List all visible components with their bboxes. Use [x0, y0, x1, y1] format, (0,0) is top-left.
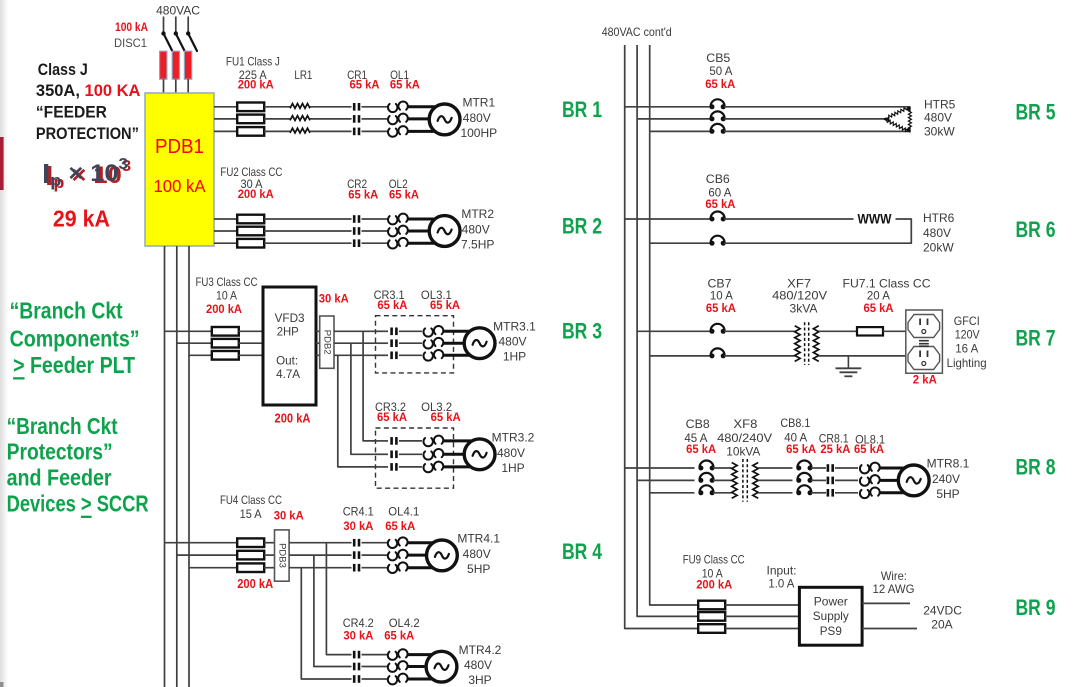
contactor CR2 pole 3 [353, 239, 360, 247]
wire [264, 230, 351, 232]
wire [724, 218, 854, 220]
contactor CR1 pole 2 [353, 115, 360, 123]
fuse FU2 pole 2 [237, 227, 264, 236]
wire (right bus phase A) [625, 45, 698, 629]
svg-text:BR 8: BR 8 [1016, 455, 1056, 480]
node BR 3 [562, 318, 602, 343]
breaker CB8 pole 1 [698, 461, 714, 471]
wire [399, 440, 422, 442]
svg-text:10 A: 10 A [216, 289, 237, 303]
svg-text:30 kA: 30 kA [319, 291, 349, 305]
heater HTR5 (delta resistor bank) [883, 106, 911, 132]
wire [310, 130, 352, 132]
svg-text:65 kA: 65 kA [854, 442, 884, 456]
bottom-left corner mark [0, 682, 4, 687]
wire [264, 106, 290, 108]
label 10 A [216, 289, 237, 303]
transformer XF8 [732, 459, 759, 502]
wire [362, 242, 388, 244]
label XF8 rating [726, 445, 760, 459]
label OL4.2 [389, 616, 420, 630]
overload OL8.1 pole 3 [860, 487, 880, 498]
wire (PDB2 to CR3.2 pole 1) [363, 331, 375, 441]
svg-text:BR 3: BR 3 [562, 318, 602, 343]
node BR 8 [1016, 455, 1056, 480]
overload OL2 pole 2 [388, 226, 408, 237]
value 65 kA (CR1) [350, 78, 380, 92]
svg-text:12 AWG: 12 AWG [873, 582, 915, 596]
overload OL2 pole 1 [388, 214, 408, 225]
label Wire: [881, 569, 907, 583]
wire [408, 566, 437, 569]
svg-text:30 kA: 30 kA [274, 508, 304, 522]
label CB8 [686, 417, 710, 431]
wire [444, 439, 476, 442]
wire [163, 17, 165, 34]
svg-text:65 kA: 65 kA [384, 629, 414, 643]
wire [399, 330, 422, 332]
wire [725, 604, 799, 606]
svg-text:350A, 100 KA: 350A, 100 KA [36, 82, 141, 100]
reactor LR1 pole 2 [290, 116, 310, 121]
node BR 6 [1016, 217, 1056, 242]
value 65 kA (OL3.1) [430, 298, 460, 312]
label 350A, 100 KA [36, 82, 141, 100]
wire [362, 218, 388, 220]
motor MTR1 [429, 104, 460, 135]
fuse FU1 pole 2 [237, 115, 264, 124]
value 200 kA (FU9) [696, 578, 732, 592]
label MTR3.1 voltage [498, 335, 526, 349]
svg-text:20kW: 20kW [923, 240, 954, 254]
svg-text:480V: 480V [464, 658, 492, 672]
wire [187, 79, 189, 93]
value 2 kA (GFCI) [913, 373, 937, 387]
svg-text:480V: 480V [463, 111, 491, 125]
overload OL3.1 pole 1 [423, 326, 443, 337]
contactor CR8.1 pole 2 [827, 477, 834, 485]
contactor CR3.1 pole 1 [390, 328, 397, 336]
wire [264, 554, 274, 556]
label HTR5 voltage [924, 111, 952, 125]
wire [189, 567, 237, 569]
wire [289, 567, 351, 569]
node 480VAC source label [156, 4, 200, 18]
label MTR8.1 [927, 457, 970, 471]
label XF7 rating [790, 302, 818, 316]
wire [835, 492, 858, 494]
svg-text:Out:: Out: [276, 353, 298, 367]
svg-text:FU3 Class CC: FU3 Class CC [196, 275, 258, 289]
wire [819, 355, 906, 357]
svg-text:480V: 480V [497, 446, 525, 460]
value 65 kA (CR3.2) [377, 410, 407, 424]
label GFCI use [947, 356, 987, 370]
wire (PDB3 to CR4.2 pole 2) [314, 555, 352, 666]
wire [811, 479, 826, 481]
fuse FU7.1 [857, 327, 883, 335]
svg-text:Devices > SCCR: Devices > SCCR [7, 491, 149, 517]
label 10 A [710, 289, 733, 303]
wire [264, 542, 274, 544]
svg-text:480/240V: 480/240V [717, 431, 772, 445]
wire [444, 465, 476, 468]
svg-text:20A: 20A [931, 617, 952, 631]
svg-text:FU1 Class J: FU1 Class J [226, 55, 280, 69]
heater HTR6 (resistor element) [858, 212, 892, 227]
svg-text:50 A: 50 A [709, 64, 732, 78]
label OL1 [390, 68, 409, 82]
fuse FU1 pole 3 [237, 127, 264, 136]
svg-text:120V: 120V [955, 327, 980, 341]
wire [264, 218, 351, 220]
svg-text:480V: 480V [463, 547, 491, 561]
formula Ip x 10^3 [42, 156, 128, 190]
label HTR6 voltage [923, 226, 951, 240]
svg-text:PS9: PS9 [820, 624, 842, 638]
svg-text:WWW: WWW [858, 212, 892, 227]
svg-text:3HP: 3HP [468, 673, 491, 687]
svg-text:10kVA: 10kVA [726, 445, 760, 459]
wire [408, 105, 440, 108]
wire [408, 218, 440, 221]
wire [264, 567, 274, 569]
overload OL4.1 pole 2 [388, 550, 408, 561]
value 25 kA (CR8.1) [820, 442, 850, 456]
svg-text:MTR3.2: MTR3.2 [492, 431, 535, 445]
contactor CR3.2 pole 2 [390, 451, 397, 459]
label MTR1 [462, 96, 495, 110]
wire [334, 342, 376, 344]
value 200 kA (FU1) [238, 78, 274, 92]
svg-text:CB8.1: CB8.1 [780, 416, 810, 430]
svg-text:65 kA: 65 kA [686, 442, 716, 456]
label OL4.1 [388, 505, 419, 519]
label MTR4.2 [459, 643, 502, 657]
svg-text:PDB1: PDB1 [155, 135, 204, 158]
contactor CR1 pole 3 [353, 128, 360, 136]
label MTR8.1 voltage [932, 472, 960, 486]
label 50 A [709, 64, 732, 78]
wire [399, 453, 422, 455]
node BR 9 [1016, 595, 1056, 620]
overload OL8.1 pole 1 [860, 463, 880, 474]
wire [177, 554, 237, 556]
value 65 kA (OL4.2) [384, 629, 414, 643]
label CR4.2 [343, 616, 374, 630]
wire [214, 118, 237, 120]
wire [880, 479, 909, 482]
contactor CR4.1 pole 1 [353, 539, 360, 547]
label FEEDER [36, 104, 107, 122]
wire [177, 342, 212, 344]
svg-text:MTR4.1: MTR4.1 [457, 532, 500, 546]
label HTR5 [924, 97, 956, 111]
wire [408, 653, 437, 656]
overload OL3.2 pole 2 [423, 449, 443, 460]
svg-text:65 kA: 65 kA [431, 410, 461, 424]
contactor CR4.2 pole 1 [353, 651, 360, 659]
wire [289, 542, 351, 544]
wire [310, 118, 352, 120]
wire [408, 242, 440, 245]
wire [811, 467, 826, 469]
svg-text:5HP: 5HP [467, 562, 490, 576]
svg-text:65 kA: 65 kA [390, 78, 420, 92]
svg-text:“Branch Ckt: “Branch Ckt [10, 297, 123, 323]
fuse FU4 pole 3 [237, 563, 264, 572]
label CB8.1 [780, 416, 810, 430]
label MTR3.1 power [503, 350, 526, 364]
svg-text:Class J: Class J [38, 61, 88, 79]
value 65 kA (CB8) [686, 442, 716, 456]
svg-text:MTR2: MTR2 [461, 207, 494, 221]
label XF8 ratio [717, 431, 772, 445]
wire [835, 479, 858, 481]
svg-text:25 kA: 25 kA [820, 442, 850, 456]
power supply PS9 [799, 587, 862, 645]
enclosure CR3.1/OL3.1 (dashed) [376, 316, 454, 373]
svg-text:65 kA: 65 kA [705, 197, 735, 211]
wire [214, 218, 237, 220]
wire (right bus phase B) [637, 45, 698, 616]
breaker CB5 pole 3 [710, 124, 726, 134]
reactor LR1 pole 3 [290, 128, 310, 133]
motor MTR4.1 [427, 540, 458, 571]
svg-text:CR4.1: CR4.1 [343, 505, 374, 519]
svg-text:480V: 480V [923, 226, 951, 240]
node BR 1 [562, 97, 602, 122]
wire [724, 118, 885, 120]
wire [239, 354, 263, 356]
breaker CB8 pole 3 [698, 485, 714, 495]
overload OL8.1 pole 2 [860, 475, 880, 486]
wire [316, 330, 320, 332]
breaker CB7 pole 1 [710, 324, 726, 334]
svg-text:Lighting: Lighting [947, 356, 987, 370]
wire [713, 467, 732, 469]
wire (PDB2 to CR3.2 pole 3) [338, 355, 376, 467]
contactor CR4.1 pole 2 [353, 551, 360, 559]
label XF7 [787, 277, 811, 291]
value 65 kA (CB7) [706, 301, 736, 315]
svg-text:BR 4: BR 4 [562, 539, 603, 564]
wire [444, 354, 476, 357]
contactor CR3.2 pole 3 [390, 463, 397, 471]
svg-text:MTR4.2: MTR4.2 [459, 643, 502, 657]
label Input: [767, 564, 797, 578]
svg-text:1.0 A: 1.0 A [768, 577, 794, 591]
overload OL4.2 pole 2 [388, 661, 408, 672]
wire [362, 118, 388, 120]
wire [724, 330, 795, 332]
label CR2 [347, 177, 367, 191]
wire (right bus phase C) [650, 45, 698, 605]
wire (PDB3 to CR4.2 pole 3) [301, 568, 351, 679]
svg-text:HTR5: HTR5 [924, 97, 956, 111]
motor MTR4.2 [426, 651, 457, 682]
wire [650, 242, 711, 244]
wire [289, 554, 351, 556]
contactor CR4.2 pole 2 [353, 663, 360, 671]
label MTR3.2 power [501, 461, 524, 475]
overload OL4.1 pole 1 [388, 537, 408, 548]
value 200 kA (VFD3) [275, 411, 311, 425]
svg-text:CB6: CB6 [706, 172, 730, 186]
label MTR2 voltage [462, 223, 490, 237]
node 480VAC contd label [602, 25, 672, 39]
wire [637, 479, 694, 481]
label CB5 [706, 51, 730, 65]
wire [399, 466, 422, 468]
wire [724, 355, 795, 357]
wire [408, 230, 440, 233]
svg-text:100 kA: 100 kA [115, 20, 148, 34]
wire (left feeder bus) [164, 246, 166, 687]
svg-text:65 kA: 65 kA [705, 77, 735, 91]
svg-text:PROTECTION”: PROTECTION” [36, 125, 139, 143]
label OL3.1 [421, 288, 452, 302]
wire [165, 542, 238, 544]
label CR3.1 [374, 288, 405, 302]
disconnect DISC1 [161, 31, 197, 51]
wire [376, 342, 389, 344]
wire [408, 678, 437, 681]
wire [264, 242, 351, 244]
wire [175, 17, 177, 34]
wire [264, 130, 290, 132]
svg-text:100HP: 100HP [460, 126, 497, 140]
breaker CB5 pole 2 [710, 111, 726, 121]
label XF7 ratio [772, 289, 827, 303]
label 15 A [240, 507, 262, 521]
wire [362, 678, 388, 680]
svg-text:Input:: Input: [767, 564, 797, 578]
svg-text:65 kA: 65 kA [430, 298, 460, 312]
label CR4.1 [343, 505, 374, 519]
wire [637, 330, 711, 332]
svg-text:4.7A: 4.7A [276, 367, 300, 381]
wire [650, 355, 711, 357]
label HTR6 power [923, 240, 954, 254]
wire [214, 130, 237, 132]
wire [725, 628, 799, 630]
label 40 A [784, 431, 807, 445]
fuse FU4 pole 2 [237, 551, 264, 560]
label FU2 Class CC [220, 165, 282, 179]
svg-text:BR 5: BR 5 [1016, 100, 1056, 125]
svg-text:480/120V: 480/120V [772, 289, 827, 303]
svg-text:PDB3: PDB3 [276, 543, 287, 568]
svg-text:> Feeder PLT: > Feeder PLT [13, 352, 135, 378]
wire [362, 554, 388, 556]
power distribution block PDB2 [320, 316, 334, 368]
svg-text:30 kA: 30 kA [343, 629, 373, 643]
transformer XF7 [795, 322, 819, 365]
value 30 kA (VFD3 input) [319, 291, 349, 305]
label 225 A [239, 68, 267, 82]
wire [625, 106, 711, 108]
svg-text:65 kA: 65 kA [385, 519, 415, 533]
label FU3 Class CC [196, 275, 258, 289]
svg-text:30kW: 30kW [924, 125, 955, 139]
svg-text:65 kA: 65 kA [786, 442, 816, 456]
ground [836, 356, 862, 376]
wire [214, 230, 237, 232]
label CR8.1 [819, 432, 849, 446]
wire [376, 453, 389, 455]
wire [650, 492, 695, 494]
label MTR1 power [460, 126, 497, 140]
motor MTR8.1 [898, 465, 929, 496]
value 200 kA (FU2) [238, 187, 274, 201]
wire [187, 17, 189, 34]
svg-text:BR 2: BR 2 [562, 214, 602, 239]
motor MTR2 [429, 216, 460, 247]
wire [758, 492, 792, 494]
overload OL1 pole 2 [388, 114, 408, 125]
svg-text:VFD3: VFD3 [275, 311, 305, 325]
value 100 kA (DISC1) [115, 20, 148, 34]
wire [214, 106, 237, 108]
drive VFD3 [263, 287, 316, 405]
contactor CR8.1 pole 3 [827, 489, 834, 497]
label MTR4.1 voltage [463, 547, 491, 561]
svg-text:CB8: CB8 [686, 417, 710, 431]
overload OL1 pole 3 [388, 126, 408, 137]
label 45 A [684, 431, 707, 445]
svg-text:15 A: 15 A [240, 507, 262, 521]
contactor CR4.2 pole 3 [353, 675, 360, 683]
wire [811, 492, 826, 494]
contactor CR2 pole 1 [353, 215, 360, 223]
svg-text:“FEEDER: “FEEDER [36, 104, 107, 122]
wire [713, 479, 732, 481]
svg-text:HTR6: HTR6 [923, 211, 955, 225]
svg-text:480V: 480V [498, 335, 526, 349]
wire [239, 330, 263, 332]
wire (PDB3 to CR4.2 pole 1) [326, 543, 351, 655]
svg-text:200 kA: 200 kA [237, 577, 273, 591]
motor MTR3.2 [464, 439, 495, 470]
svg-text:LR1: LR1 [294, 68, 312, 82]
svg-text:MTR8.1: MTR8.1 [927, 457, 970, 471]
label PROTECTION [36, 125, 139, 143]
value 30 kA (CR4.2) [343, 629, 373, 643]
svg-text:Ip × 103: Ip × 103 [42, 156, 128, 190]
overload OL3.2 pole 3 [423, 462, 443, 473]
value 30 kA (CR4.1) [343, 519, 373, 533]
wire [334, 354, 376, 356]
contactor CR1 pole 1 [353, 103, 360, 111]
reactor LR1 pole 1 [290, 104, 310, 109]
svg-text:Supply: Supply [813, 609, 849, 623]
value 65 kA (CB5) [705, 77, 735, 91]
value 200 kA (PDB3) [237, 577, 273, 591]
label MTR3.2 [492, 431, 535, 445]
contactor CR4.1 pole 3 [353, 564, 360, 572]
svg-text:“Branch Ckt: “Branch Ckt [7, 413, 118, 439]
svg-text:480V: 480V [924, 111, 952, 125]
overload OL4.2 pole 3 [388, 674, 408, 685]
breaker CB8 pole 2 [698, 473, 714, 483]
svg-text:240V: 240V [932, 472, 960, 486]
svg-text:3kVA: 3kVA [790, 302, 818, 316]
svg-text:16 A: 16 A [955, 341, 978, 355]
wire [163, 79, 165, 93]
svg-text:Protectors”: Protectors” [7, 439, 113, 465]
breaker CB8.1 pole 3 [796, 485, 812, 495]
